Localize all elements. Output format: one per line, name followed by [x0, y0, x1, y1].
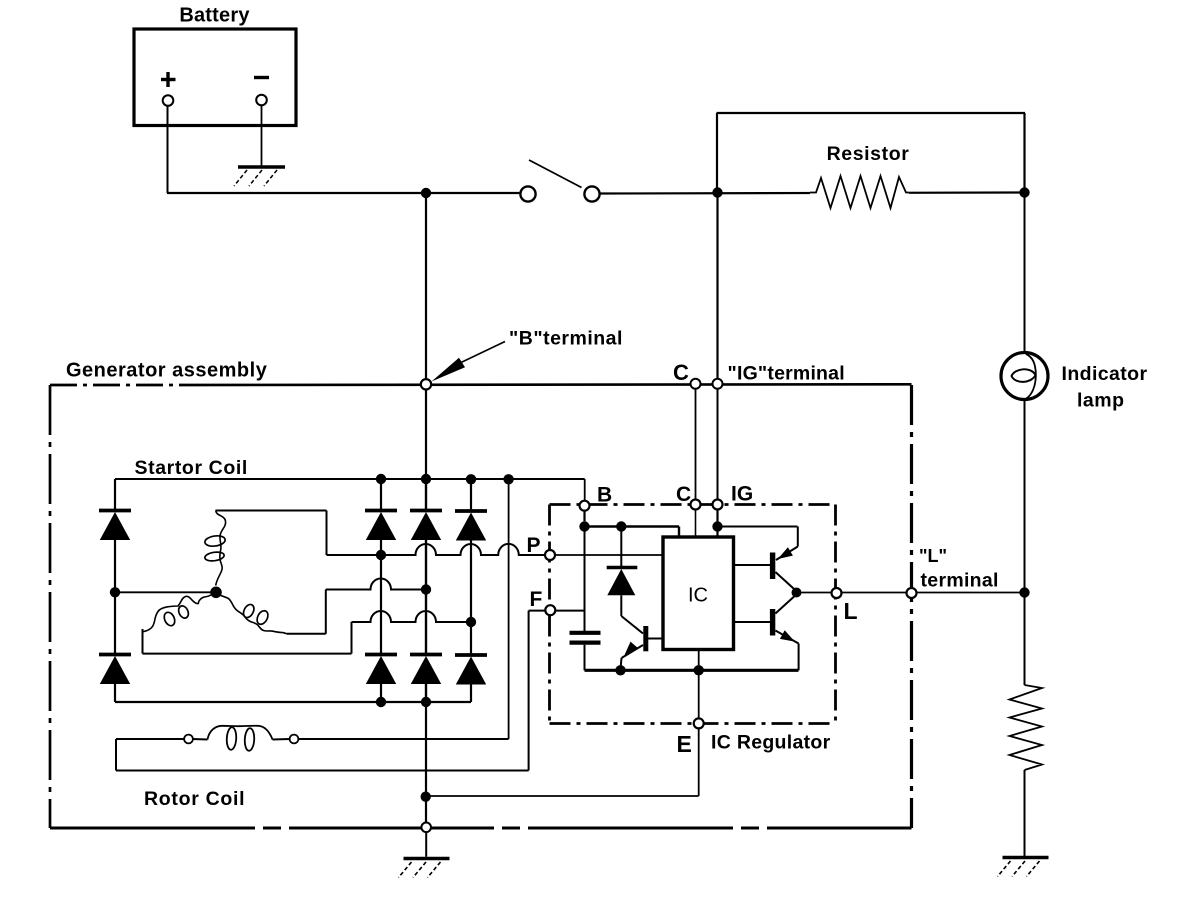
svg-text:Resistor: Resistor [827, 143, 910, 165]
svg-text:Indicator: Indicator [1062, 363, 1148, 385]
svg-text:E: E [677, 731, 692, 757]
svg-text:IG: IG [731, 483, 753, 506]
svg-text:IC Regulator: IC Regulator [711, 732, 831, 754]
svg-text:Battery: Battery [179, 5, 250, 27]
svg-text:Rotor Coil: Rotor Coil [144, 788, 245, 810]
svg-text:L: L [844, 598, 858, 624]
svg-text:"L": "L" [919, 546, 947, 566]
svg-text:terminal: terminal [921, 570, 999, 592]
svg-text:C: C [673, 360, 689, 385]
svg-text:IC: IC [688, 585, 708, 607]
svg-text:Generator assembly: Generator assembly [66, 360, 268, 382]
svg-text:"IG"terminal: "IG"terminal [728, 363, 845, 385]
svg-text:Startor Coil: Startor Coil [135, 457, 248, 479]
svg-text:C: C [676, 483, 691, 506]
svg-text:lamp: lamp [1077, 390, 1125, 412]
svg-text:F: F [530, 588, 543, 611]
svg-text:B: B [597, 484, 612, 507]
svg-text:P: P [527, 534, 541, 557]
svg-text:"B"terminal: "B"terminal [509, 328, 623, 350]
